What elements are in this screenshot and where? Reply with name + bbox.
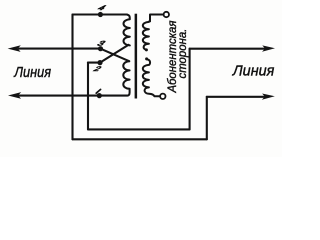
svg-text:Линия: Линия <box>13 63 51 80</box>
svg-text:сторона.: сторона. <box>177 29 189 79</box>
winding L2 lower start dot <box>145 57 148 60</box>
transformer core <box>135 14 138 99</box>
wire: outer left vertical <box>71 15 73 140</box>
transformer winding L1 lower section (line side) <box>123 61 129 95</box>
arrowhead lower-right <box>262 94 275 100</box>
wire: top horizontal from left loop to transformer <box>73 13 127 15</box>
svg-text:4: 4 <box>96 4 107 12</box>
arrowhead upper-right <box>262 45 275 51</box>
wire: inner right vertical <box>189 49 191 130</box>
terminal circle top (subscriber side) <box>164 12 169 17</box>
wire: upper-left line (to node 3) <box>19 48 101 50</box>
node 3 junction dot <box>98 46 103 51</box>
wire: secondary top lead <box>150 15 164 22</box>
terminal circle bottom (subscriber side) <box>160 94 165 99</box>
svg-text:2: 2 <box>91 65 103 72</box>
wire: crossover node 3 to lower winding <box>101 49 130 62</box>
arrowhead upper-left <box>8 45 21 52</box>
svg-text:Линия: Линия <box>232 63 275 79</box>
wire: outer right vertical <box>206 97 208 140</box>
arrowhead lower-left <box>8 92 21 99</box>
wire: lower-left line (to node 1) <box>19 95 127 97</box>
transformer winding L2 lower section (subscriber side) <box>143 59 160 96</box>
label 1 <box>96 89 100 93</box>
transformer winding L2 upper section (subscriber side) <box>143 21 150 49</box>
node 1 junction dot <box>97 93 102 98</box>
wire: node 2 stub <box>88 62 100 64</box>
transformer winding L1 upper section (line side) <box>124 15 130 46</box>
svg-text:3: 3 <box>96 39 108 47</box>
wire: lower-right line out <box>207 96 266 98</box>
wire: outer bottom run <box>73 138 207 140</box>
wire: inner left vertical (from node 2) <box>87 63 89 130</box>
wire: upper-right line out <box>190 48 266 50</box>
node 2 junction dot <box>97 60 102 65</box>
node 4 junction dot <box>98 12 103 17</box>
winding L2 upper end dot <box>145 48 148 51</box>
wire: crossover node 2 to upper winding <box>100 45 128 63</box>
wire: inner bottom run <box>88 128 190 130</box>
